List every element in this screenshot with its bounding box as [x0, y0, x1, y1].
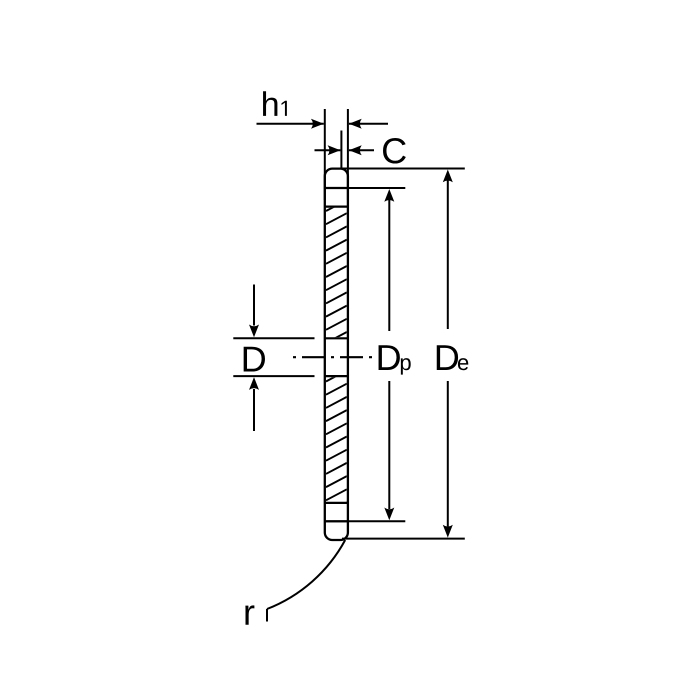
label r — [245, 605, 254, 624]
r leader curve — [267, 540, 345, 609]
label C — [383, 138, 406, 163]
bore bottom line across bar — [325, 375, 348, 377]
label D — [244, 347, 265, 372]
D up arrow stem — [253, 389, 255, 431]
h1 dimension line right tail — [349, 123, 388, 125]
C extension line — [340, 131, 342, 169]
centerline (dash-dot) — [293, 356, 372, 358]
h1 extension line left — [324, 109, 326, 200]
Dp top extension line — [325, 187, 406, 189]
hatching upper section — [326, 200, 347, 343]
bore line lower left — [233, 375, 314, 377]
Dp bottom extension line — [325, 520, 406, 522]
C right arrowhead — [349, 145, 362, 155]
tooth cap bottom line — [325, 187, 348, 189]
h1 right arrowhead — [349, 119, 362, 129]
Dp up arrowhead — [384, 189, 394, 202]
De down arrowhead — [443, 525, 453, 538]
bore line upper left — [233, 337, 314, 339]
De bottom extension line — [342, 538, 465, 540]
label De — [437, 345, 458, 370]
De top extension line — [342, 168, 465, 170]
C left arrowhead — [328, 145, 341, 155]
bottom cap top line — [325, 520, 348, 522]
Dp dimension line lower segment — [388, 381, 390, 509]
hatching lower section — [326, 371, 347, 514]
D down arrowhead — [249, 325, 259, 338]
sprocket profile outline — [325, 169, 348, 540]
De up arrowhead — [443, 170, 453, 183]
label h1 — [263, 91, 277, 116]
D down arrow stem — [253, 285, 255, 326]
Dp dimension line upper segment — [388, 200, 390, 331]
C dimension line right tail — [349, 149, 374, 151]
h1 extension line right — [347, 109, 349, 200]
De dimension line lower segment — [447, 381, 449, 527]
D up arrowhead — [249, 377, 259, 390]
r leader end tick — [266, 609, 268, 622]
rim line top — [325, 206, 348, 208]
bore top line across bar — [325, 337, 348, 339]
label Dp — [379, 345, 400, 370]
rim line bottom — [325, 502, 348, 504]
De dimension line upper segment — [447, 181, 449, 330]
h1 dimension line left tail — [257, 123, 324, 125]
C dimension line left tail — [315, 149, 341, 151]
h1 left arrowhead — [311, 119, 324, 129]
Dp down arrowhead — [384, 508, 394, 521]
